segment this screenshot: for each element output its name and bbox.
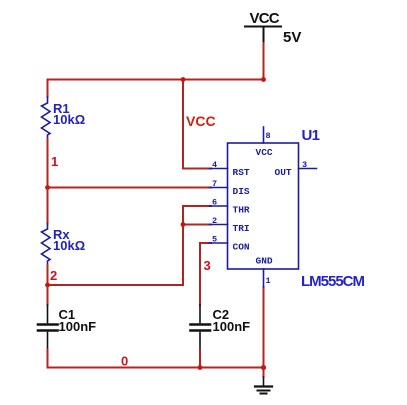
svg-text:GND: GND	[256, 256, 273, 267]
wire Rx to node 2	[47, 265, 49, 285]
ground	[255, 368, 272, 394]
svg-text:DIS: DIS	[233, 186, 250, 197]
svg-text:VCC: VCC	[256, 147, 273, 158]
svg-text:5: 5	[212, 235, 217, 245]
wire node1 to DIS pin	[48, 187, 212, 189]
pin 3 OUT stub	[275, 160, 317, 178]
junction top rail / pin8 wire	[261, 77, 266, 82]
pin 1 GND stub	[256, 256, 273, 288]
wire bottom rail node 0	[48, 367, 264, 369]
junction node1	[45, 185, 50, 190]
wire node2 to THR/TRI vertical	[48, 284, 184, 286]
svg-text:5V: 5V	[283, 29, 301, 46]
svg-text:CON: CON	[233, 242, 250, 253]
svg-text:VCC: VCC	[186, 113, 216, 129]
wire C1 to bottom rail	[47, 350, 49, 368]
svg-text:6: 6	[212, 198, 217, 208]
svg-text:100nF: 100nF	[213, 319, 251, 334]
svg-text:OUT: OUT	[275, 167, 292, 178]
svg-text:7: 7	[212, 179, 217, 189]
svg-text:TRI: TRI	[233, 223, 250, 234]
wire VCC net vertical to RST	[183, 80, 211, 169]
pin 8 VCC stub	[256, 127, 273, 158]
wire top rail	[48, 79, 264, 81]
power symbol VCC	[245, 10, 301, 46]
resistor Rx	[42, 224, 86, 266]
junction node2	[45, 283, 50, 288]
svg-text:1: 1	[51, 154, 58, 169]
wire pin1 to rail	[263, 287, 265, 368]
pin 2 TRI stub	[210, 216, 250, 234]
svg-text:100nF: 100nF	[59, 319, 97, 334]
wire THR to vertical	[183, 206, 211, 285]
svg-text:1: 1	[266, 276, 271, 286]
svg-text:LM555CM: LM555CM	[301, 273, 365, 290]
junction rail / ground	[261, 365, 266, 370]
junction C2 / rail	[198, 365, 203, 370]
pin 6 THR stub	[210, 198, 250, 216]
junction top rail / VCC net	[181, 77, 186, 82]
pin 4 RST stub	[210, 160, 250, 178]
capacitor C1	[38, 305, 96, 350]
wire VCC symbol to top rail	[263, 43, 265, 80]
svg-text:0: 0	[121, 354, 128, 369]
svg-text:10kΩ: 10kΩ	[53, 238, 85, 253]
wire R1 to node 1	[47, 139, 49, 188]
pin 5 CON stub	[210, 235, 250, 253]
svg-text:THR: THR	[233, 205, 250, 216]
wire left vertical (top rail to R1)	[47, 80, 49, 98]
wire C2 to bottom rail	[199, 350, 201, 368]
svg-text:VCC: VCC	[250, 10, 280, 27]
wire node2 to C1	[47, 285, 49, 305]
resistor R1	[42, 97, 86, 139]
svg-text:2: 2	[50, 268, 57, 283]
pin 7 DIS stub	[210, 179, 250, 197]
svg-text:10kΩ: 10kΩ	[53, 112, 85, 127]
op-amp U1 box LM555CM	[228, 143, 299, 269]
svg-text:3: 3	[204, 258, 211, 273]
wire CON to C2	[200, 243, 211, 305]
svg-text:3: 3	[302, 160, 307, 170]
wire TRI to vertical	[183, 224, 211, 226]
svg-text:U1: U1	[302, 127, 320, 144]
svg-text:RST: RST	[233, 167, 250, 178]
junction TRI	[181, 222, 186, 227]
wire node1 to Rx	[47, 188, 49, 224]
capacitor C2	[191, 305, 251, 350]
svg-text:4: 4	[212, 160, 217, 170]
svg-text:2: 2	[212, 216, 217, 226]
svg-text:8: 8	[266, 131, 271, 141]
